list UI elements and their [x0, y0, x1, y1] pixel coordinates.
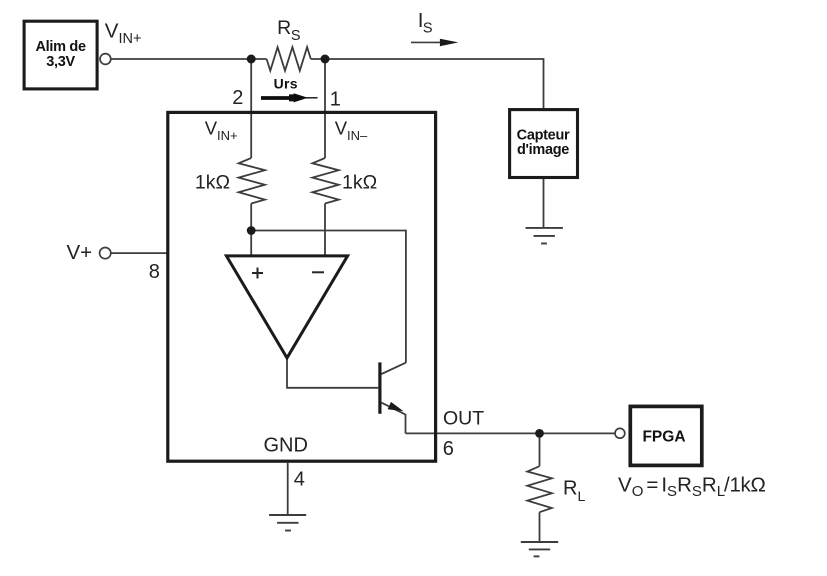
svg-text:4: 4 [294, 469, 305, 491]
svg-text:S: S [291, 28, 301, 44]
svg-text:Capteur: Capteur [517, 127, 570, 143]
svg-text:R: R [563, 478, 577, 500]
svg-text:IN+: IN+ [119, 31, 142, 47]
svg-text:V: V [105, 20, 119, 43]
svg-text:1kΩ: 1kΩ [195, 172, 230, 194]
svg-text:d'image: d'image [517, 142, 569, 158]
svg-text:S: S [423, 20, 433, 36]
svg-text:L: L [578, 488, 586, 504]
svg-text:VO=ISRSRL/1kΩ: VO=ISRSRL/1kΩ [618, 473, 766, 500]
svg-text:2: 2 [232, 87, 243, 109]
svg-text:1kΩ: 1kΩ [342, 172, 377, 194]
svg-text:Alim de: Alim de [35, 39, 86, 55]
svg-text:1: 1 [330, 89, 341, 111]
svg-text:3,3V: 3,3V [46, 54, 75, 70]
svg-text:Urs: Urs [274, 76, 298, 92]
svg-text:8: 8 [149, 261, 160, 283]
svg-text:V: V [335, 117, 348, 138]
svg-text:GND: GND [264, 434, 308, 456]
svg-text:V: V [205, 117, 218, 138]
svg-text:6: 6 [443, 438, 454, 460]
svg-text:V+: V+ [67, 241, 93, 264]
svg-text:R: R [277, 17, 291, 39]
svg-text:FPGA: FPGA [642, 428, 685, 445]
svg-text:OUT: OUT [443, 407, 484, 429]
svg-text:IN+: IN+ [217, 128, 238, 143]
svg-text:IN–: IN– [347, 128, 368, 143]
